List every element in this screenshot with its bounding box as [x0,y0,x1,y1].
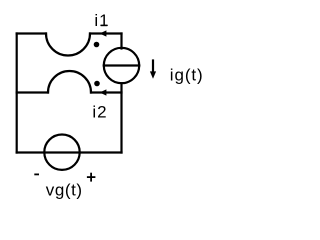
svg-text:vg(t): vg(t) [46,181,83,200]
polarity dot (bottom winding) [94,81,100,87]
plus polarity mark of vg(t) [87,176,96,178]
svg-text:ig(t): ig(t) [170,65,204,84]
wire: middle segment left of inductor [17,91,48,93]
current arrow i1 (arrowhead on top wire, pointing left) [100,30,107,36]
current reference arrow for ig(t), shaft [152,61,154,74]
wire: right rail below current source [120,83,122,152]
wire: top segment left of inductor [17,32,46,34]
inductor L2 (bottom winding, semicircular hump) [48,71,91,93]
current source ig(t) circle [104,48,139,83]
minus polarity mark of vg(t) [34,173,39,175]
polarity dot (top winding) [94,42,100,48]
svg-text:i1: i1 [94,11,109,30]
wire: middle segment right of inductor [91,91,122,93]
wire: right rail top stub into current source [120,34,122,49]
current arrow i2 (arrowhead on middle wire, pointing left) [100,89,107,95]
inductor L1 (top winding, semicircular hump) [46,34,90,56]
current source internal bar [104,64,139,66]
svg-text:i2: i2 [92,102,107,121]
wire: top segment right of inductor [90,32,122,34]
voltage source vg(t) circle [44,135,79,170]
wire: bottom rail [17,151,122,153]
current reference arrow for ig(t), head [150,71,156,78]
wire: left rail [16,34,18,153]
